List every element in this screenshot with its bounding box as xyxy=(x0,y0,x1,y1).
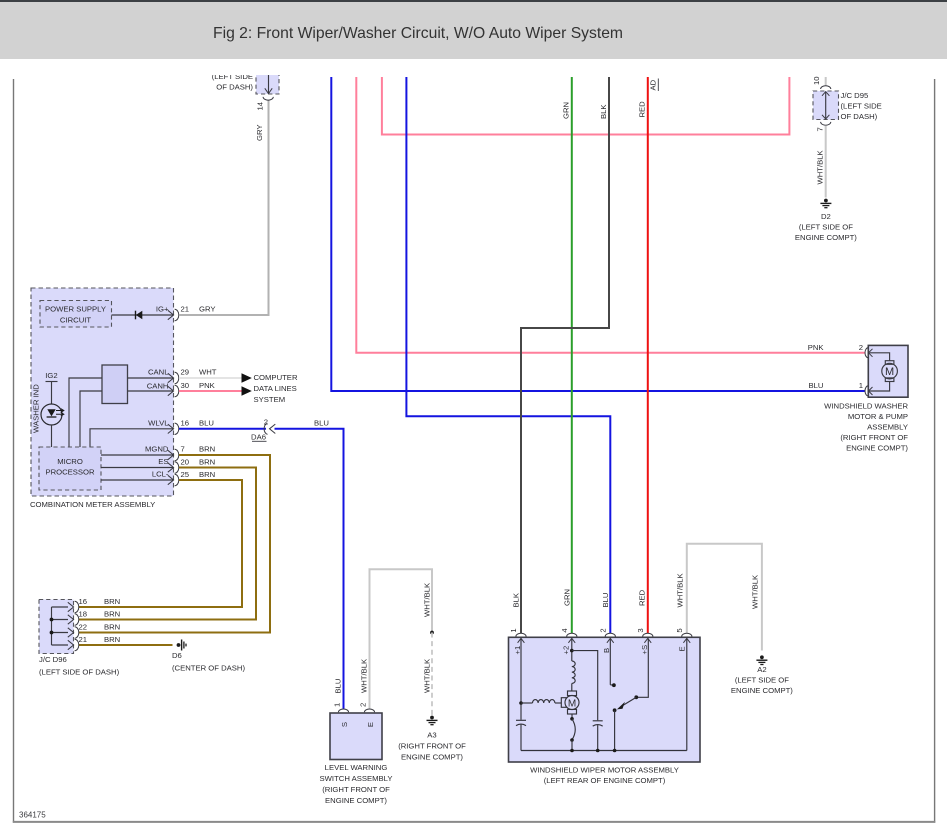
wire +1 junction to choke coil xyxy=(521,702,533,704)
harness code AD rotated with underline xyxy=(649,79,659,92)
junction dot D96 bus pin18 xyxy=(50,618,54,622)
wire +2 cap to rail xyxy=(597,725,599,750)
svg-text:3: 3 xyxy=(636,628,645,632)
svg-text:(LEFT REAR OF ENGINE COMPT): (LEFT REAR OF ENGINE COMPT) xyxy=(544,776,666,785)
label COMPUTER DATA LINES SYSTEM xyxy=(254,373,298,404)
svg-text:4: 4 xyxy=(560,628,569,633)
svg-text:20: 20 xyxy=(181,458,190,467)
svg-text:GRN: GRN xyxy=(562,102,571,119)
svg-text:DA6: DA6 xyxy=(251,433,266,442)
wiper pin 2 cup xyxy=(605,633,615,636)
wiper wire E vertical xyxy=(686,639,688,751)
pin 20 connector symbol xyxy=(168,462,179,473)
svg-text:MGND: MGND xyxy=(145,445,169,454)
junction dot splice WHT/BLK xyxy=(430,631,434,635)
svg-text:OF DASH): OF DASH) xyxy=(216,83,253,92)
svg-text:21: 21 xyxy=(79,635,88,644)
junction dot D96 bus pin22 xyxy=(50,631,54,635)
flex jumper arc motor to rail xyxy=(572,719,575,740)
label level warning switch assembly xyxy=(320,763,393,805)
svg-text:(RIGHT FRONT OF: (RIGHT FRONT OF xyxy=(840,433,908,442)
svg-text:BLU: BLU xyxy=(199,418,214,427)
wire BRN LCL- pin25 to J/C D96 pin 16 xyxy=(79,480,243,607)
svg-text:BRN: BRN xyxy=(199,445,215,454)
LED washer indicator xyxy=(41,404,64,425)
svg-text:E: E xyxy=(677,646,686,651)
wire PNK CANH to computer xyxy=(179,390,242,392)
svg-text:M: M xyxy=(568,698,576,709)
washer pin 2 arrow xyxy=(869,349,873,357)
junction dot motor bottom xyxy=(570,717,574,721)
J/C D95 pin 7 cup xyxy=(821,122,831,125)
svg-text:MOTOR & PUMP: MOTOR & PUMP xyxy=(848,412,908,421)
svg-text:PNK: PNK xyxy=(808,343,825,352)
label windshield washer motor assembly xyxy=(824,402,908,453)
top connector (left side of dash) xyxy=(212,66,279,94)
power supply circuit block xyxy=(40,301,112,328)
svg-text:(RIGHT FRONT OF: (RIGHT FRONT OF xyxy=(398,742,466,751)
wire GRN from top to wiper motor pin 4 xyxy=(571,77,573,633)
wire PSC to IG+ pin xyxy=(112,314,174,316)
pin 7 connector symbol xyxy=(168,449,179,460)
wire CANL block to micro processor xyxy=(69,378,102,447)
svg-text:J/C D95: J/C D95 xyxy=(841,91,869,100)
svg-text:25: 25 xyxy=(181,470,190,479)
svg-text:WINDSHIELD WIPER MOTOR ASSEMBL: WINDSHIELD WIPER MOTOR ASSEMBLY xyxy=(530,766,679,775)
svg-text:D6: D6 xyxy=(172,651,182,660)
ground A3 xyxy=(398,716,466,762)
svg-text:ENGINE COMPT): ENGINE COMPT) xyxy=(795,233,857,242)
wire BLU from top to washer pump pin 1 xyxy=(331,77,865,391)
node IG2 xyxy=(45,371,57,382)
inductor L1 horizontal choke xyxy=(533,700,555,703)
pin 21 connector symbol xyxy=(168,309,179,320)
svg-text:2: 2 xyxy=(599,628,608,632)
wiper wire +1 cap to rail xyxy=(520,725,522,751)
wire MGND to pin 7 xyxy=(101,454,174,456)
wire BLK from top jog to wiper motor pin 1 xyxy=(521,77,609,633)
wiper pin 5 arrow xyxy=(683,638,690,643)
junction block J/C D96 xyxy=(39,600,120,677)
svg-text:OF DASH): OF DASH) xyxy=(841,112,878,121)
junction dot +1 branch xyxy=(519,701,523,705)
svg-text:10: 10 xyxy=(812,76,821,85)
wire +2 junction to cap branch xyxy=(572,651,598,721)
svg-text:BRN: BRN xyxy=(104,623,120,632)
ground A2 xyxy=(731,655,793,694)
svg-text:22: 22 xyxy=(79,623,88,632)
svg-text:LEVEL WARNING: LEVEL WARNING xyxy=(325,763,388,772)
D96 pin numbers 16 18 22 21 xyxy=(79,597,88,644)
svg-text:WINDSHIELD WASHER: WINDSHIELD WASHER xyxy=(824,402,908,411)
svg-text:IG+: IG+ xyxy=(156,305,169,314)
in-line connector DA6 xyxy=(251,418,275,442)
pin 16 connector symbol xyxy=(168,423,179,434)
svg-text:COMPUTER: COMPUTER xyxy=(254,373,298,382)
svg-text:WHT/BLK: WHT/BLK xyxy=(675,572,684,607)
wire IG2 to LED xyxy=(51,382,53,405)
washer pin 1 arrow xyxy=(869,387,873,395)
wire WHT/BLK level switch pin E loop to junction xyxy=(370,569,433,709)
svg-text:21: 21 xyxy=(181,305,190,314)
svg-text:WHT/BLK: WHT/BLK xyxy=(750,574,759,609)
svg-text:ENGINE COMPT): ENGINE COMPT) xyxy=(731,686,793,695)
svg-text:BLU: BLU xyxy=(334,679,343,694)
washer pin 2 cup xyxy=(865,348,868,358)
wire motor bottom to flex jumper xyxy=(571,714,573,718)
combination meter assembly box xyxy=(30,288,174,509)
windshield wiper motor assembly box xyxy=(509,637,701,762)
svg-text:BLU: BLU xyxy=(314,418,329,427)
wiper pin 1 cup xyxy=(516,633,526,636)
J/C D95 pin 10 cup xyxy=(821,86,831,89)
wire CANH block to pin 30 xyxy=(128,390,174,392)
svg-text:GRY: GRY xyxy=(255,124,264,141)
svg-text:(RIGHT FRONT OF: (RIGHT FRONT OF xyxy=(322,785,390,794)
D96 pin 16 connector symbol xyxy=(68,601,79,612)
svg-text:30: 30 xyxy=(181,381,190,390)
washer internal wire pin2 to motor xyxy=(870,353,890,361)
svg-text:2: 2 xyxy=(264,418,268,427)
wiper pin 5 cup xyxy=(682,633,692,636)
switch pin E (2) cup xyxy=(364,709,374,712)
wire PNK staple from top down right and back to top xyxy=(382,77,790,135)
svg-text:Fig 2: Front Wiper/Washer Circ: Fig 2: Front Wiper/Washer Circuit, W/O A… xyxy=(213,25,623,42)
svg-text:GRN: GRN xyxy=(562,589,571,606)
wiper wire +S vertical xyxy=(637,639,648,698)
wiper wire B vertical xyxy=(609,639,611,685)
pin 29 connector symbol xyxy=(168,372,179,383)
wiper pin 1 arrow xyxy=(518,638,525,643)
wiper terminal labels rotated +1 +2 B +S E xyxy=(513,645,687,655)
svg-text:GRY: GRY xyxy=(199,305,216,314)
svg-text:M: M xyxy=(885,366,894,378)
switch pivot dot xyxy=(613,708,617,712)
svg-text:(LEFT SIDE OF: (LEFT SIDE OF xyxy=(735,675,789,684)
junction block J/C D95 xyxy=(813,91,882,121)
wire choke to motor brush xyxy=(555,702,561,704)
D96 pin 22 connector symbol xyxy=(68,627,79,638)
junction dot rail at cap branch xyxy=(596,749,600,753)
svg-text:29: 29 xyxy=(181,368,190,377)
svg-text:BLK: BLK xyxy=(599,104,608,119)
svg-text:1: 1 xyxy=(509,628,518,632)
top clip band xyxy=(0,60,947,76)
wiper pin 3 cup xyxy=(643,633,653,636)
svg-text:S: S xyxy=(340,722,349,727)
ground D2 xyxy=(795,199,857,242)
wiper wire +1 vertical xyxy=(520,639,522,720)
svg-text:BLK: BLK xyxy=(512,592,521,607)
D96 pin 21 connector symbol xyxy=(68,639,79,650)
svg-text:WLVL: WLVL xyxy=(148,418,169,427)
svg-text:ASSEMBLY: ASSEMBLY xyxy=(867,423,908,432)
svg-text:RED: RED xyxy=(638,101,647,118)
svg-text:WASHER IND: WASHER IND xyxy=(32,384,41,433)
svg-text:PROCESSOR: PROCESSOR xyxy=(45,468,95,477)
svg-text:BRN: BRN xyxy=(199,458,215,467)
svg-text:COMBINATION METER ASSEMBLY: COMBINATION METER ASSEMBLY xyxy=(30,500,155,509)
pin 25 connector symbol xyxy=(168,474,179,485)
svg-text:(LEFT SIDE OF: (LEFT SIDE OF xyxy=(799,223,853,232)
wire WHT CANL to computer xyxy=(179,377,242,379)
wire WLVL micro processor to pin 16 xyxy=(90,429,174,447)
wire BLU from top to wiper motor pin 2 (B) xyxy=(406,77,610,633)
inductor L2 vertical armature choke xyxy=(572,661,575,683)
wire pivot to rail xyxy=(614,710,616,750)
wiper pin 3 arrow xyxy=(644,638,651,643)
label windshield wiper motor assembly xyxy=(530,766,679,786)
junction dot jumper end xyxy=(570,738,574,742)
wire RED from top to wiper motor pin 3 xyxy=(647,77,649,633)
frame bottom border xyxy=(13,821,936,823)
micro processor block xyxy=(39,447,101,490)
wire GRY pin 21 to top connector xyxy=(179,100,269,316)
D96 pin 18 connector symbol xyxy=(68,614,79,625)
diode D in IG+ line xyxy=(136,311,143,320)
wire WHT/BLK top to J/C D95 pin 10 xyxy=(825,77,827,86)
svg-text:1: 1 xyxy=(333,703,342,707)
wire CANH block to micro processor xyxy=(80,391,102,447)
svg-text:WHT/BLK: WHT/BLK xyxy=(423,658,432,693)
svg-text:CANL: CANL xyxy=(148,368,169,377)
junction dot rail at switch branch xyxy=(613,749,617,753)
svg-text:364175: 364175 xyxy=(19,811,46,820)
wire ES to pin 20 xyxy=(101,467,174,469)
svg-text:J/C D96: J/C D96 xyxy=(39,655,67,664)
svg-text:2: 2 xyxy=(359,703,368,707)
washer pin 1 cup xyxy=(865,386,868,396)
svg-text:ENGINE COMPT): ENGINE COMPT) xyxy=(325,796,387,805)
wire WHT/BLK wiper pin 5 to ground A2 xyxy=(687,544,762,651)
svg-text:BRN: BRN xyxy=(104,610,120,619)
svg-text:7: 7 xyxy=(181,445,185,454)
title bar xyxy=(0,0,947,59)
arrow to computer data lines (CANL) xyxy=(242,373,252,383)
svg-text:WHT/BLK: WHT/BLK xyxy=(816,149,825,184)
svg-text:A3: A3 xyxy=(427,731,436,740)
wiper pin 4 cup xyxy=(567,633,577,636)
frame left border xyxy=(13,79,15,823)
wire LED to micro processor xyxy=(51,425,53,447)
wire BLU WLVL pin16 to in-line connector DA6 xyxy=(179,428,266,430)
wire BLU DA6 to level warning switch pin S xyxy=(275,429,344,709)
svg-text:ENGINE COMPT): ENGINE COMPT) xyxy=(846,444,908,453)
svg-text:(LEFT SIDE OF DASH): (LEFT SIDE OF DASH) xyxy=(39,668,120,677)
wire PNK from top to washer pump pin 2 xyxy=(356,77,865,353)
svg-text:SYSTEM: SYSTEM xyxy=(254,395,286,404)
svg-text:1: 1 xyxy=(859,381,863,390)
svg-text:MICRO: MICRO xyxy=(57,457,83,466)
wire L2 to motor top xyxy=(571,683,573,691)
wiper pin numbers rotated 1 4 2 3 5 xyxy=(509,628,684,633)
wire CANL block to pin 29 xyxy=(128,377,174,379)
wiper motor M xyxy=(561,691,579,714)
contact dot +S xyxy=(634,695,638,699)
wire BRN MGND pin7 to J/C D96 pin 22 xyxy=(79,455,271,633)
svg-text:BRN: BRN xyxy=(199,470,215,479)
wiper pin 2 arrow xyxy=(607,638,614,643)
washer internal wire motor to pin1 xyxy=(870,382,890,392)
svg-text:LCL-: LCL- xyxy=(152,470,169,479)
svg-text:+S: +S xyxy=(640,645,649,655)
svg-text:IG2: IG2 xyxy=(45,371,57,380)
capacitor C +2 branch xyxy=(593,721,603,726)
svg-text:5: 5 xyxy=(675,628,684,632)
svg-text:SWITCH ASSEMBLY: SWITCH ASSEMBLY xyxy=(320,774,393,783)
pin 30 connector symbol xyxy=(168,385,179,396)
arrow to computer data lines (CANH) xyxy=(242,386,252,396)
wire BRN ES pin20 to J/C D96 pin 18 xyxy=(79,468,257,620)
top connector pin 14 cup xyxy=(263,97,273,100)
junction dot rail at motor jumper xyxy=(570,749,574,753)
park switch arm with arrowhead xyxy=(617,697,636,709)
svg-text:(CENTER OF DASH): (CENTER OF DASH) xyxy=(172,664,245,673)
svg-text:16: 16 xyxy=(79,597,88,606)
wiper wire +2 vertical xyxy=(571,639,573,662)
svg-text:(LEFT SIDE: (LEFT SIDE xyxy=(841,102,882,111)
wire jumper to rail xyxy=(571,740,573,751)
switch pin S (1) cup xyxy=(338,709,348,712)
wire WHT/BLK J/C D95 pin 7 to ground D2 xyxy=(825,126,827,198)
wire WHT/BLK dashed splice to ground A3 xyxy=(431,633,433,716)
capacitor C +1 branch xyxy=(516,720,526,725)
svg-text:BLU: BLU xyxy=(809,381,824,390)
svg-text:18: 18 xyxy=(79,610,88,619)
svg-text:AD: AD xyxy=(649,79,658,90)
D96 BRN wire labels xyxy=(104,597,120,644)
contact dot B xyxy=(610,684,614,686)
washer motor M xyxy=(882,361,898,382)
wiper ground rail xyxy=(521,750,687,752)
svg-text:PNK: PNK xyxy=(199,381,216,390)
svg-text:WHT/BLK: WHT/BLK xyxy=(360,658,369,693)
ground D6 xyxy=(172,640,245,673)
svg-text:7: 7 xyxy=(815,127,824,131)
frame right border xyxy=(934,79,936,823)
svg-text:ES: ES xyxy=(158,457,168,466)
CAN interface block xyxy=(102,365,128,404)
svg-text:+2: +2 xyxy=(562,646,571,655)
svg-text:A2: A2 xyxy=(757,665,766,674)
level warning switch assembly box xyxy=(330,713,382,760)
svg-text:CANH: CANH xyxy=(147,382,169,391)
wire BRN J/C D96 pin 21 to ground D6 xyxy=(79,644,173,646)
svg-text:14: 14 xyxy=(256,101,265,110)
svg-text:POWER SUPPLY: POWER SUPPLY xyxy=(45,305,106,314)
svg-text:BRN: BRN xyxy=(104,635,120,644)
svg-text:BLU: BLU xyxy=(601,593,610,608)
windshield washer motor and pump assembly box xyxy=(868,345,908,397)
svg-text:RED: RED xyxy=(637,589,646,606)
svg-text:BRN: BRN xyxy=(104,597,120,606)
svg-text:ENGINE COMPT): ENGINE COMPT) xyxy=(401,753,463,762)
wiper pin 4 arrow xyxy=(568,638,575,643)
svg-text:WHT: WHT xyxy=(199,368,217,377)
svg-text:2: 2 xyxy=(859,343,863,352)
svg-text:DATA LINES: DATA LINES xyxy=(254,384,297,393)
junction dot +2 branch xyxy=(570,649,574,653)
svg-text:E: E xyxy=(366,722,375,727)
svg-text:D2: D2 xyxy=(821,212,831,221)
wire LCL- to pin 25 xyxy=(101,479,174,481)
svg-text:16: 16 xyxy=(181,418,190,427)
svg-text:B: B xyxy=(602,648,611,653)
svg-text:WHT/BLK: WHT/BLK xyxy=(423,582,432,617)
svg-text:CIRCUIT: CIRCUIT xyxy=(60,316,91,325)
